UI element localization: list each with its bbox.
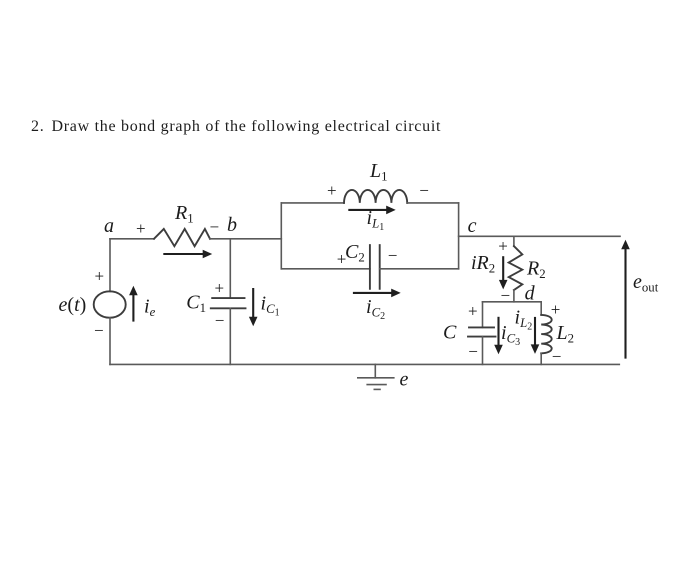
ground xyxy=(374,364,376,377)
svg-text:e(t): e(t) xyxy=(59,294,87,316)
svg-text:−: − xyxy=(468,342,478,361)
wire d-box left down to C xyxy=(482,302,484,328)
wire top horizontal a to R1 xyxy=(110,238,154,240)
resistor R2 xyxy=(509,246,523,290)
voltage source e(t) xyxy=(94,291,126,317)
svg-text:+: + xyxy=(215,279,225,298)
resistor R1 xyxy=(154,229,210,246)
svg-text:R1: R1 xyxy=(174,202,194,226)
wire R2 to node d xyxy=(513,290,515,302)
svg-text:+: + xyxy=(551,300,561,319)
wire box bottom-left to C2 xyxy=(281,268,370,270)
wire box to node c and to eout xyxy=(459,235,620,237)
wire R1 to box left xyxy=(210,238,281,240)
svg-text:−: − xyxy=(552,347,562,366)
wire node c down to R2 xyxy=(513,236,515,246)
arrow iL1 xyxy=(348,209,387,211)
problem title xyxy=(31,118,441,136)
wire box left edge xyxy=(280,203,282,269)
svg-text:L2: L2 xyxy=(556,322,575,346)
inductor L1 xyxy=(344,190,407,203)
arrow eout xyxy=(624,248,626,359)
svg-text:−: − xyxy=(388,246,398,265)
svg-text:eout: eout xyxy=(633,271,659,295)
wire d-box top edge xyxy=(483,301,542,303)
svg-text:R2: R2 xyxy=(526,258,546,282)
svg-text:+: + xyxy=(136,219,146,238)
svg-text:c: c xyxy=(468,215,477,237)
svg-text:iL2: iL2 xyxy=(515,307,533,333)
capacitor C1 xyxy=(212,297,244,299)
arrow iC3 xyxy=(497,317,499,347)
svg-text:d: d xyxy=(525,283,536,305)
svg-text:+: + xyxy=(468,302,478,321)
svg-text:iR2: iR2 xyxy=(471,252,495,276)
wire d-box right down to L2 xyxy=(540,302,542,315)
wire C2 to box bottom-right xyxy=(380,268,459,270)
svg-text:+: + xyxy=(95,267,105,286)
svg-text:−: − xyxy=(215,311,225,330)
wire node b down to C1 xyxy=(229,239,231,298)
svg-text:iC2: iC2 xyxy=(366,296,385,322)
svg-text:−: − xyxy=(210,218,220,237)
arrow ie xyxy=(132,294,134,322)
wire C1 to bottom rail xyxy=(229,308,231,364)
svg-text:−: − xyxy=(419,181,429,200)
inductor L2 xyxy=(541,315,552,353)
wire box right edge xyxy=(458,203,460,269)
svg-text:+: + xyxy=(498,237,508,256)
wire L2 to bottom rail xyxy=(540,353,542,364)
arrow iR1 xyxy=(163,253,203,255)
arrow iR2 xyxy=(502,256,504,281)
wire C to bottom rail xyxy=(482,337,484,365)
svg-text:C: C xyxy=(443,322,457,344)
svg-text:−: − xyxy=(94,321,104,340)
svg-text:a: a xyxy=(104,215,114,237)
svg-text:e: e xyxy=(400,369,409,391)
wire source to bottom rail xyxy=(109,318,111,365)
wire bottom rail xyxy=(110,363,619,365)
svg-text:−: − xyxy=(501,286,511,305)
svg-text:iC1: iC1 xyxy=(261,293,280,319)
capacitor C2 xyxy=(369,245,371,289)
wire L1 to box top-right xyxy=(407,202,458,204)
wire box top-left to L1 xyxy=(281,202,344,204)
svg-text:C2: C2 xyxy=(345,241,365,265)
svg-text:+: + xyxy=(337,249,347,268)
capacitor C xyxy=(469,326,494,328)
svg-text:ie: ie xyxy=(144,296,156,320)
svg-text:C1: C1 xyxy=(186,292,206,316)
arrow iL2 xyxy=(534,317,536,346)
arrow iC2 xyxy=(353,292,392,294)
svg-text:+: + xyxy=(327,181,337,200)
arrow iC1 xyxy=(252,288,254,319)
svg-text:b: b xyxy=(227,214,237,236)
svg-text:L1: L1 xyxy=(369,160,388,184)
wire top-left: node a down to source xyxy=(109,239,111,292)
